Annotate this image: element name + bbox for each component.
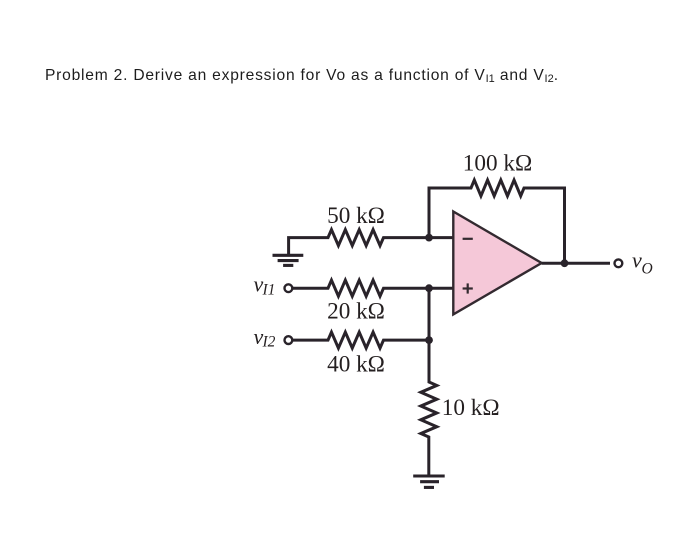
- svg-text:v: v: [632, 248, 642, 273]
- svg-text:40 kΩ: 40 kΩ: [327, 352, 385, 378]
- svg-text:100 kΩ: 100 kΩ: [463, 151, 532, 177]
- svg-text:O: O: [642, 261, 653, 278]
- svg-text:I1: I1: [262, 282, 276, 299]
- svg-text:10 kΩ: 10 kΩ: [442, 395, 500, 421]
- svg-text:I2: I2: [262, 334, 276, 351]
- svg-text:50 kΩ: 50 kΩ: [327, 203, 385, 229]
- svg-text:20 kΩ: 20 kΩ: [327, 299, 385, 325]
